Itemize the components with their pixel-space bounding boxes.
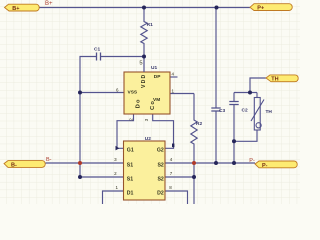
svg-text:C1: C1 bbox=[94, 46, 100, 52]
svg-text:5: 5 bbox=[139, 61, 142, 67]
svg-text:B+: B+ bbox=[45, 1, 53, 7]
svg-text:C2: C2 bbox=[242, 107, 248, 113]
resistor R2 bbox=[191, 94, 203, 164]
node junction rail C3 bbox=[215, 6, 219, 10]
svg-text:P-: P- bbox=[262, 163, 268, 169]
wire C2 TH top link bbox=[234, 92, 257, 94]
wire Co to G2 loop bbox=[153, 114, 174, 148]
wire R2 net down to edge bbox=[193, 163, 195, 204]
svg-text:TH: TH bbox=[271, 77, 278, 83]
net label P- bbox=[249, 158, 255, 164]
node junction B- red bbox=[78, 161, 82, 165]
svg-text:C3: C3 bbox=[219, 108, 225, 114]
node junction R2 rail red bbox=[192, 161, 196, 165]
svg-text:B+: B+ bbox=[12, 6, 19, 12]
node junction C2 rail bbox=[232, 161, 236, 165]
thermistor TH bbox=[251, 98, 272, 131]
svg-text:P-: P- bbox=[249, 158, 255, 164]
node junction S1 corner bbox=[78, 175, 82, 179]
svg-text:G1: G1 bbox=[127, 148, 134, 154]
wire B- line bbox=[46, 162, 124, 164]
svg-text:G2: G2 bbox=[157, 148, 164, 154]
svg-text:VM: VM bbox=[153, 97, 160, 103]
wire VSS pin 6 bbox=[80, 92, 124, 94]
wire TH leads bbox=[234, 93, 257, 142]
net label B- bbox=[46, 157, 52, 163]
svg-text:DP: DP bbox=[154, 74, 161, 80]
wire C1 right lead to VDD node bbox=[101, 56, 145, 58]
svg-text:B-: B- bbox=[11, 163, 17, 169]
node junction C1 VDD bbox=[142, 55, 146, 59]
wire D2 down bbox=[165, 191, 188, 204]
port P+ bbox=[250, 4, 292, 12]
svg-text:S2: S2 bbox=[157, 176, 163, 182]
svg-text:B-: B- bbox=[46, 157, 52, 163]
capacitor C3 bbox=[211, 108, 225, 114]
wire TH port lead bbox=[250, 78, 266, 93]
wire C3 bottom lead bbox=[215, 111, 217, 163]
resistor R1 bbox=[141, 8, 153, 57]
node junction C2 TH bottom bbox=[232, 139, 236, 143]
svg-text:S2: S2 bbox=[157, 162, 163, 168]
net label B+ bbox=[45, 1, 53, 7]
svg-text:VSS: VSS bbox=[128, 90, 138, 96]
node junction S2 R2 bbox=[192, 175, 196, 179]
pin G2 number mark bbox=[172, 144, 174, 148]
svg-text:U2: U2 bbox=[145, 136, 151, 142]
node junction rail R1 bbox=[142, 6, 146, 10]
wire top rail B+ to P+ bbox=[39, 7, 250, 9]
svg-text:Do: Do bbox=[135, 98, 141, 108]
wire C1 left lead down bbox=[80, 57, 97, 93]
wire C2 leads bbox=[233, 93, 235, 164]
wire S2 pin 7 to R2 net bbox=[165, 176, 194, 178]
svg-text:S1: S1 bbox=[127, 176, 133, 182]
wire D1 down bbox=[103, 191, 124, 204]
svg-text:R1: R1 bbox=[147, 22, 153, 28]
port TH bbox=[266, 75, 298, 83]
wire P- rail bbox=[165, 162, 255, 164]
IC U1 bbox=[116, 57, 175, 122]
wire left vertical to B- line bbox=[79, 93, 81, 164]
wire S1 pin 2 bbox=[80, 176, 124, 178]
svg-text:S1: S1 bbox=[127, 162, 133, 168]
svg-text:TH: TH bbox=[266, 109, 273, 115]
node junction TH top bbox=[248, 91, 252, 95]
wire VM pin 1 to R2 bbox=[170, 93, 194, 95]
wire C3 top lead from rail bbox=[215, 8, 217, 109]
port B+ bbox=[5, 4, 40, 12]
wire Do to G1 loop bbox=[117, 114, 134, 148]
svg-text:VDD: VDD bbox=[141, 74, 147, 88]
svg-text:R2: R2 bbox=[196, 121, 202, 127]
wire left vertical B- to S1 bbox=[79, 163, 81, 177]
capacitor C1 bbox=[94, 46, 101, 60]
svg-text:D2: D2 bbox=[157, 190, 164, 196]
capacitor C2 bbox=[229, 102, 248, 114]
svg-text:P+: P+ bbox=[257, 6, 264, 12]
pin G1 number mark bbox=[116, 146, 120, 151]
IC U2 bbox=[114, 136, 174, 200]
wire pin 4 stub bbox=[170, 76, 178, 78]
svg-text:D1: D1 bbox=[127, 190, 134, 196]
port B- bbox=[4, 161, 45, 169]
node junction C3 rail bbox=[214, 161, 218, 165]
port P- bbox=[255, 161, 297, 169]
svg-text:U1: U1 bbox=[151, 65, 157, 71]
node junction C1 VSS bbox=[78, 91, 82, 95]
